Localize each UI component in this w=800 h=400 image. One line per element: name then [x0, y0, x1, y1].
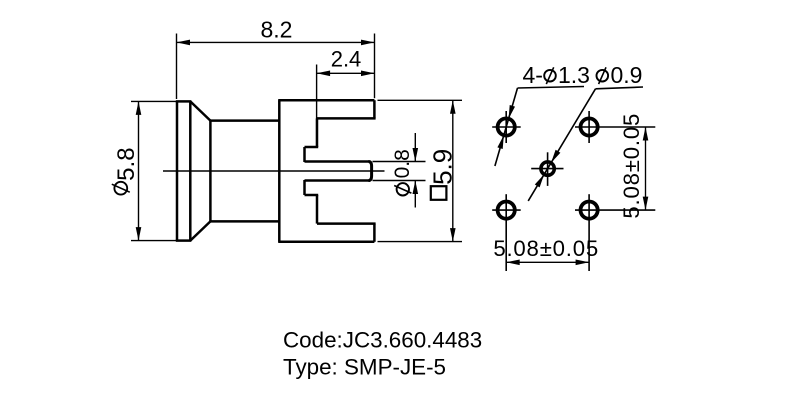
svg-text:5.08±0.05: 5.08±0.05 — [619, 113, 644, 219]
svg-text:5.8: 5.8 — [113, 147, 140, 180]
svg-text:Type: SMP-JE-5: Type: SMP-JE-5 — [283, 355, 446, 380]
svg-text:5.08±0.05: 5.08±0.05 — [493, 236, 599, 261]
svg-text:8.2: 8.2 — [261, 16, 293, 42]
svg-text:1.3: 1.3 — [558, 62, 590, 88]
svg-text:Code:JC3.660.4483: Code:JC3.660.4483 — [283, 327, 482, 352]
svg-text:5.9: 5.9 — [428, 149, 458, 185]
svg-text:2.4: 2.4 — [331, 47, 362, 72]
svg-text:0.9: 0.9 — [611, 62, 643, 88]
svg-text:0.8: 0.8 — [391, 149, 414, 178]
svg-text:4-: 4- — [523, 62, 543, 88]
